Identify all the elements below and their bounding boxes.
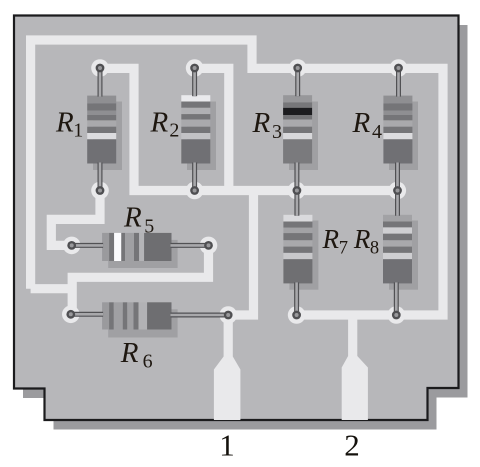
svg-text:8: 8: [370, 239, 379, 259]
hole R5 left: [67, 241, 76, 250]
pad R2 bottom: [186, 182, 204, 200]
svg-text:4: 4: [372, 121, 382, 143]
svg-text:R: R: [150, 106, 169, 138]
pad R4 top: [390, 59, 408, 77]
svg-text:2: 2: [344, 428, 360, 463]
resistor R7 shadow: [289, 221, 318, 290]
wire: R1 top pad elbow down to main horizontal: [100, 68, 397, 190]
resistor R6 shadow: [108, 309, 177, 337]
terminal tab 2: [342, 315, 368, 420]
svg-text:1: 1: [73, 120, 83, 142]
svg-text:R: R: [353, 224, 371, 254]
resistor R2: [181, 95, 210, 163]
pad R8 bottom: [388, 306, 406, 324]
svg-text:R: R: [123, 202, 142, 234]
svg-text:6: 6: [143, 350, 153, 372]
resistor R3 shadow: [289, 102, 318, 171]
lead R3 top: [295, 68, 300, 96]
resistor R1: [87, 96, 116, 164]
lead R4 bottom / R8 top: [395, 163, 400, 216]
resistor R8: [383, 215, 412, 284]
resistor R5: [102, 233, 171, 261]
wire: outer frame (left, top, step-down, right, bottom-right): [31, 40, 443, 315]
resistor R4 shadow: [389, 102, 418, 171]
pad R5 left: [63, 237, 81, 255]
pad R3 top: [289, 59, 307, 77]
pad R2 top: [186, 59, 204, 77]
pad R1 bottom: [91, 182, 109, 200]
svg-text:2: 2: [169, 120, 179, 142]
hole R8 bottom: [392, 311, 401, 320]
hole R1 top: [96, 64, 105, 73]
hole R4/R8: [393, 186, 402, 195]
terminal tab 1: [214, 315, 241, 420]
pad R6 left: [62, 306, 80, 324]
lead R2 top: [192, 68, 197, 96]
svg-text:R: R: [55, 106, 74, 138]
svg-text:R: R: [352, 107, 371, 139]
lead R3 bottom / R7 top: [294, 163, 299, 216]
pad R3/R7 shared: [288, 182, 306, 200]
lead R4 top: [396, 68, 401, 97]
hole R3 top: [293, 64, 302, 73]
svg-text:3: 3: [272, 121, 282, 143]
svg-text:R: R: [252, 107, 271, 139]
wire: R1 bottom pad S-path to R5 left pad: [51, 191, 100, 246]
leads (outer dark): [71, 68, 399, 315]
lead R5 right: [171, 243, 209, 248]
hole R2 bottom: [190, 186, 199, 195]
lead R5 left: [72, 243, 103, 248]
svg-text:7: 7: [339, 239, 348, 259]
resistor R8 shadow: [389, 221, 418, 290]
resistor R7: [283, 215, 312, 284]
resistor R1 shadow: [93, 102, 122, 171]
hole R3/R7: [293, 186, 302, 195]
lead R2 bottom: [192, 163, 197, 191]
resistor R2 shadow: [187, 102, 216, 171]
lead R1 bottom: [98, 163, 103, 191]
pad R4/R8 shared: [389, 182, 407, 200]
pads (outer): [62, 59, 407, 324]
pad holes: [66, 64, 403, 320]
wire: branch down from main horizontal to R6 right pad: [228, 186, 253, 315]
lead R1 top: [98, 68, 103, 97]
svg-text:1: 1: [219, 428, 235, 463]
hole R4 top: [394, 64, 403, 73]
resistor R3: [283, 95, 312, 163]
lead R7 bottom: [294, 282, 299, 315]
resistor R6: [102, 302, 171, 329]
lead R6 right: [171, 313, 229, 318]
hole R7 bottom: [292, 311, 301, 320]
hole R6 right: [224, 311, 233, 320]
pad R7 bottom: [288, 306, 306, 324]
wire: R5 right pad elbow down-left, leg to R6 left pad: [72, 245, 208, 314]
wire: left frame connect to junction: [31, 284, 73, 293]
pad R6 right: [219, 306, 237, 324]
pad R5 right: [200, 237, 218, 255]
lead R8 bottom: [394, 282, 399, 315]
lead R6 left: [71, 312, 103, 317]
svg-text:R: R: [322, 224, 340, 254]
svg-text:R: R: [120, 337, 139, 369]
hole R2 top: [190, 64, 199, 73]
svg-text:5: 5: [144, 215, 154, 237]
wire: R2 top pad elbow down to main horizontal: [195, 68, 229, 190]
hole R6 left: [66, 310, 75, 319]
hole R1 bottom: [96, 186, 105, 195]
leads (inner light core): [71, 68, 399, 315]
hole R5 right: [204, 241, 213, 250]
resistor R5 shadow: [108, 240, 177, 268]
resistor R4: [383, 96, 412, 164]
pad R1 top: [91, 59, 109, 77]
